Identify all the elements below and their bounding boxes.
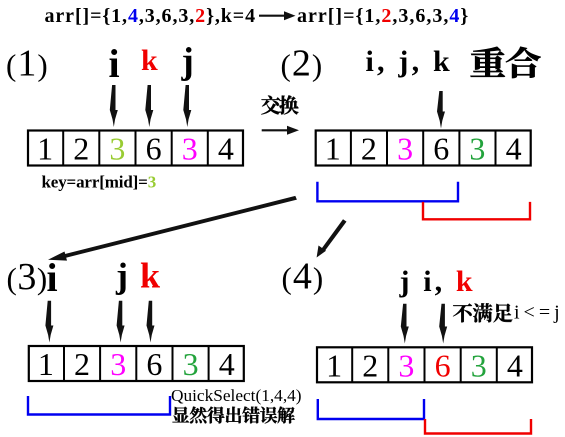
svg-text:j: j xyxy=(181,41,194,82)
svg-text:6: 6 xyxy=(146,346,162,382)
long arrow to section3 xyxy=(48,196,297,261)
svg-text:i: i xyxy=(109,41,120,86)
red bracket section4 xyxy=(425,419,531,434)
svg-text:(4): (4) xyxy=(282,256,325,298)
chinese 显然得出错误解 (obviously wrong answer) xyxy=(172,406,294,423)
svg-text:2: 2 xyxy=(361,131,377,167)
svg-text:i, j, k: i, j, k xyxy=(366,45,453,78)
svg-text:3: 3 xyxy=(182,131,198,167)
svg-text:QuickSelect(1,4,4): QuickSelect(1,4,4) xyxy=(171,386,302,405)
svg-text:4: 4 xyxy=(218,131,234,167)
svg-text:3: 3 xyxy=(109,131,125,167)
svg-text:i<=j: i<=j xyxy=(514,302,564,324)
arrow i section1 xyxy=(110,85,118,127)
svg-text:3: 3 xyxy=(183,346,199,382)
svg-text:(3): (3) xyxy=(7,256,48,298)
array section1 xyxy=(28,131,243,167)
array section2 xyxy=(316,131,531,167)
svg-text:3: 3 xyxy=(110,346,126,382)
short arrow to section4 xyxy=(317,219,347,257)
svg-text:4: 4 xyxy=(507,347,523,383)
arrow j section1 xyxy=(183,85,191,127)
swap arrow right xyxy=(262,126,299,135)
svg-text:6: 6 xyxy=(146,131,162,167)
svg-text:4: 4 xyxy=(506,131,522,167)
svg-text:2: 2 xyxy=(73,131,89,167)
svg-text:2: 2 xyxy=(362,347,378,383)
svg-text:6: 6 xyxy=(435,347,451,383)
top formula arrow xyxy=(259,11,296,20)
svg-text:3: 3 xyxy=(471,347,487,383)
arrow k section1 xyxy=(145,85,153,127)
svg-text:k: k xyxy=(140,256,160,296)
svg-text:(2): (2) xyxy=(281,43,324,85)
svg-text:1: 1 xyxy=(38,346,54,382)
red bracket section2 xyxy=(423,202,530,219)
blue bracket section2 xyxy=(317,182,458,202)
svg-text:1: 1 xyxy=(37,131,53,167)
arrow j section3 xyxy=(117,301,125,343)
svg-text:j i, k: j i, k xyxy=(399,265,476,298)
svg-text:1: 1 xyxy=(325,131,341,167)
svg-text:3: 3 xyxy=(469,131,485,167)
svg-text:arr[]={1,2,3,6,3,4}: arr[]={1,2,3,6,3,4} xyxy=(297,5,469,27)
svg-text:j: j xyxy=(115,256,128,296)
array section4 xyxy=(317,347,532,383)
svg-text:(1): (1) xyxy=(6,43,49,85)
blue bracket section3 xyxy=(28,396,170,415)
svg-text:arr[]={1,4,3,6,3,2},k=4: arr[]={1,4,3,6,3,2},k=4 xyxy=(45,5,256,27)
array section3 xyxy=(29,346,244,382)
svg-text:2: 2 xyxy=(74,346,90,382)
arrow j section4 xyxy=(401,304,409,344)
chinese 重合 (coincide) xyxy=(471,47,541,78)
svg-text:3: 3 xyxy=(397,131,413,167)
arrow ik section4 xyxy=(439,304,447,344)
svg-text:1: 1 xyxy=(326,347,342,383)
svg-text:6: 6 xyxy=(433,131,449,167)
svg-text:i: i xyxy=(47,255,58,300)
chinese 不满足 (not satisfied) xyxy=(453,303,512,322)
svg-text:3: 3 xyxy=(398,347,414,383)
svg-text:k: k xyxy=(141,44,158,77)
arrow i section3 xyxy=(45,301,53,343)
chinese 交换 (swap) xyxy=(261,95,298,114)
arrow k section3 xyxy=(147,301,155,343)
svg-text:key=arr[mid]=3: key=arr[mid]=3 xyxy=(42,173,157,192)
arrow k section2 xyxy=(437,91,445,129)
blue bracket section4 xyxy=(318,399,424,419)
svg-text:4: 4 xyxy=(219,346,235,382)
